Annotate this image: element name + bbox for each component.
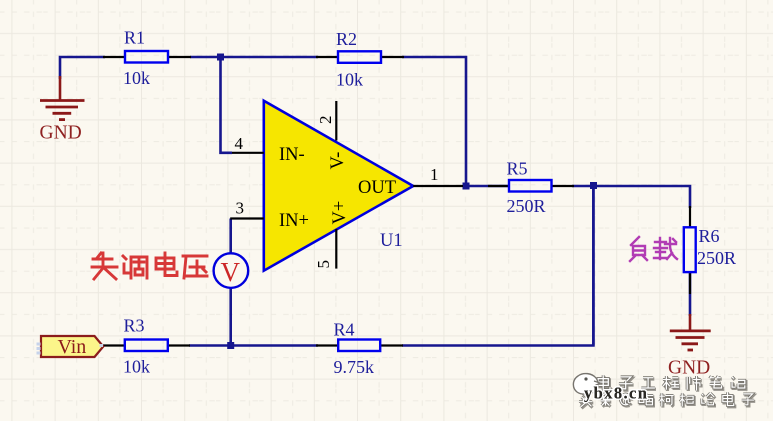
resistor R4 bbox=[316, 320, 403, 378]
pin 3 bbox=[230, 217, 264, 219]
label: 负载 (load, purple, drawn as paths) bbox=[630, 237, 677, 261]
resistor R1 bbox=[103, 28, 191, 89]
svg-text:R1: R1 bbox=[124, 28, 145, 48]
wire: junction A down to pin4 of U1 bbox=[221, 57, 233, 153]
watermark line 1: 电子工程师笔记 outlined bbox=[599, 377, 746, 392]
port Vin bbox=[37, 336, 104, 358]
svg-text:R6: R6 bbox=[699, 226, 720, 246]
wire: output node to R5 left bbox=[466, 185, 510, 188]
op-amp U1 bbox=[230, 101, 463, 271]
watermark line 2: 头条@嗨柯杞论电子 outlined bbox=[580, 394, 755, 409]
node A junction dot bbox=[217, 54, 224, 61]
svg-text:GND: GND bbox=[40, 123, 82, 144]
wire: R5 right to node C to R6 corner bbox=[572, 186, 690, 208]
resistor R5 bbox=[488, 159, 574, 217]
svg-text:10k: 10k bbox=[123, 68, 150, 88]
watermark bird logo bbox=[573, 374, 598, 395]
label: 失调电压 (offset voltage, red, drawn as paths) bbox=[92, 253, 207, 279]
svg-text:3: 3 bbox=[236, 199, 245, 218]
wire: R6 bottom to GND2 bbox=[689, 272, 692, 316]
wire: top row GND1 corner to R1 left pin bbox=[60, 57, 105, 79]
svg-text:U1: U1 bbox=[380, 231, 403, 251]
svg-text:R3: R3 bbox=[124, 316, 145, 336]
char 压 bbox=[183, 256, 207, 278]
svg-text:10k: 10k bbox=[123, 357, 150, 377]
wire: bottom row R3 right to node B to R4 left bbox=[189, 344, 318, 347]
ground GND1 bbox=[40, 76, 85, 144]
ground GND2 bbox=[668, 314, 711, 379]
char 载 bbox=[654, 238, 677, 259]
char 失 bbox=[92, 253, 117, 279]
svg-text:4: 4 bbox=[235, 134, 244, 153]
svg-text:V-: V- bbox=[328, 152, 348, 170]
node C junction dot bbox=[590, 182, 597, 189]
svg-text:5: 5 bbox=[314, 260, 333, 269]
wire: R2 right to feedback corner, down to output node bbox=[402, 57, 466, 186]
wire: pin3 corner down to voltmeter top bbox=[229, 219, 232, 255]
char 调 bbox=[123, 256, 147, 278]
voltmeter V (offset voltage source) bbox=[214, 253, 249, 288]
svg-text:V: V bbox=[221, 257, 241, 287]
svg-text:ybx8.cn: ybx8.cn bbox=[584, 384, 648, 403]
svg-text:OUT: OUT bbox=[358, 178, 396, 198]
svg-text:IN-: IN- bbox=[279, 145, 305, 165]
svg-text:R4: R4 bbox=[334, 320, 355, 340]
wire: node C down to bottom row corner bbox=[592, 186, 595, 346]
wire: R4 right to corner up to node C column bbox=[402, 186, 593, 346]
svg-text:Vin: Vin bbox=[58, 336, 87, 358]
svg-text:250R: 250R bbox=[507, 196, 546, 216]
char 负 bbox=[630, 237, 647, 261]
svg-text:GND: GND bbox=[668, 358, 710, 379]
resistor R2 bbox=[316, 29, 404, 90]
svg-text:IN+: IN+ bbox=[279, 211, 309, 231]
svg-text:1: 1 bbox=[430, 165, 439, 184]
node B junction dot bbox=[227, 342, 234, 349]
svg-text:R2: R2 bbox=[336, 29, 357, 49]
svg-text:250R: 250R bbox=[697, 248, 736, 268]
svg-text:10k: 10k bbox=[336, 70, 363, 90]
node OUT junction dot bbox=[463, 183, 470, 190]
svg-text:2: 2 bbox=[316, 116, 335, 125]
resistor R6 (vertical) bbox=[684, 206, 736, 294]
pin 2 stub bbox=[335, 101, 337, 141]
resistor R3 bbox=[102, 316, 190, 377]
wire: R1 right to junction A to R2 left bbox=[190, 56, 318, 59]
pin 1 bbox=[413, 185, 463, 187]
wire: voltmeter bottom down to node B on bottom row bbox=[229, 288, 232, 347]
pin 4 bbox=[232, 152, 264, 154]
svg-text:9.75k: 9.75k bbox=[334, 357, 375, 377]
char 电 bbox=[156, 253, 177, 276]
svg-text:R5: R5 bbox=[507, 159, 528, 179]
svg-text:V+: V+ bbox=[330, 201, 350, 225]
pin 5 stub bbox=[335, 229, 337, 269]
